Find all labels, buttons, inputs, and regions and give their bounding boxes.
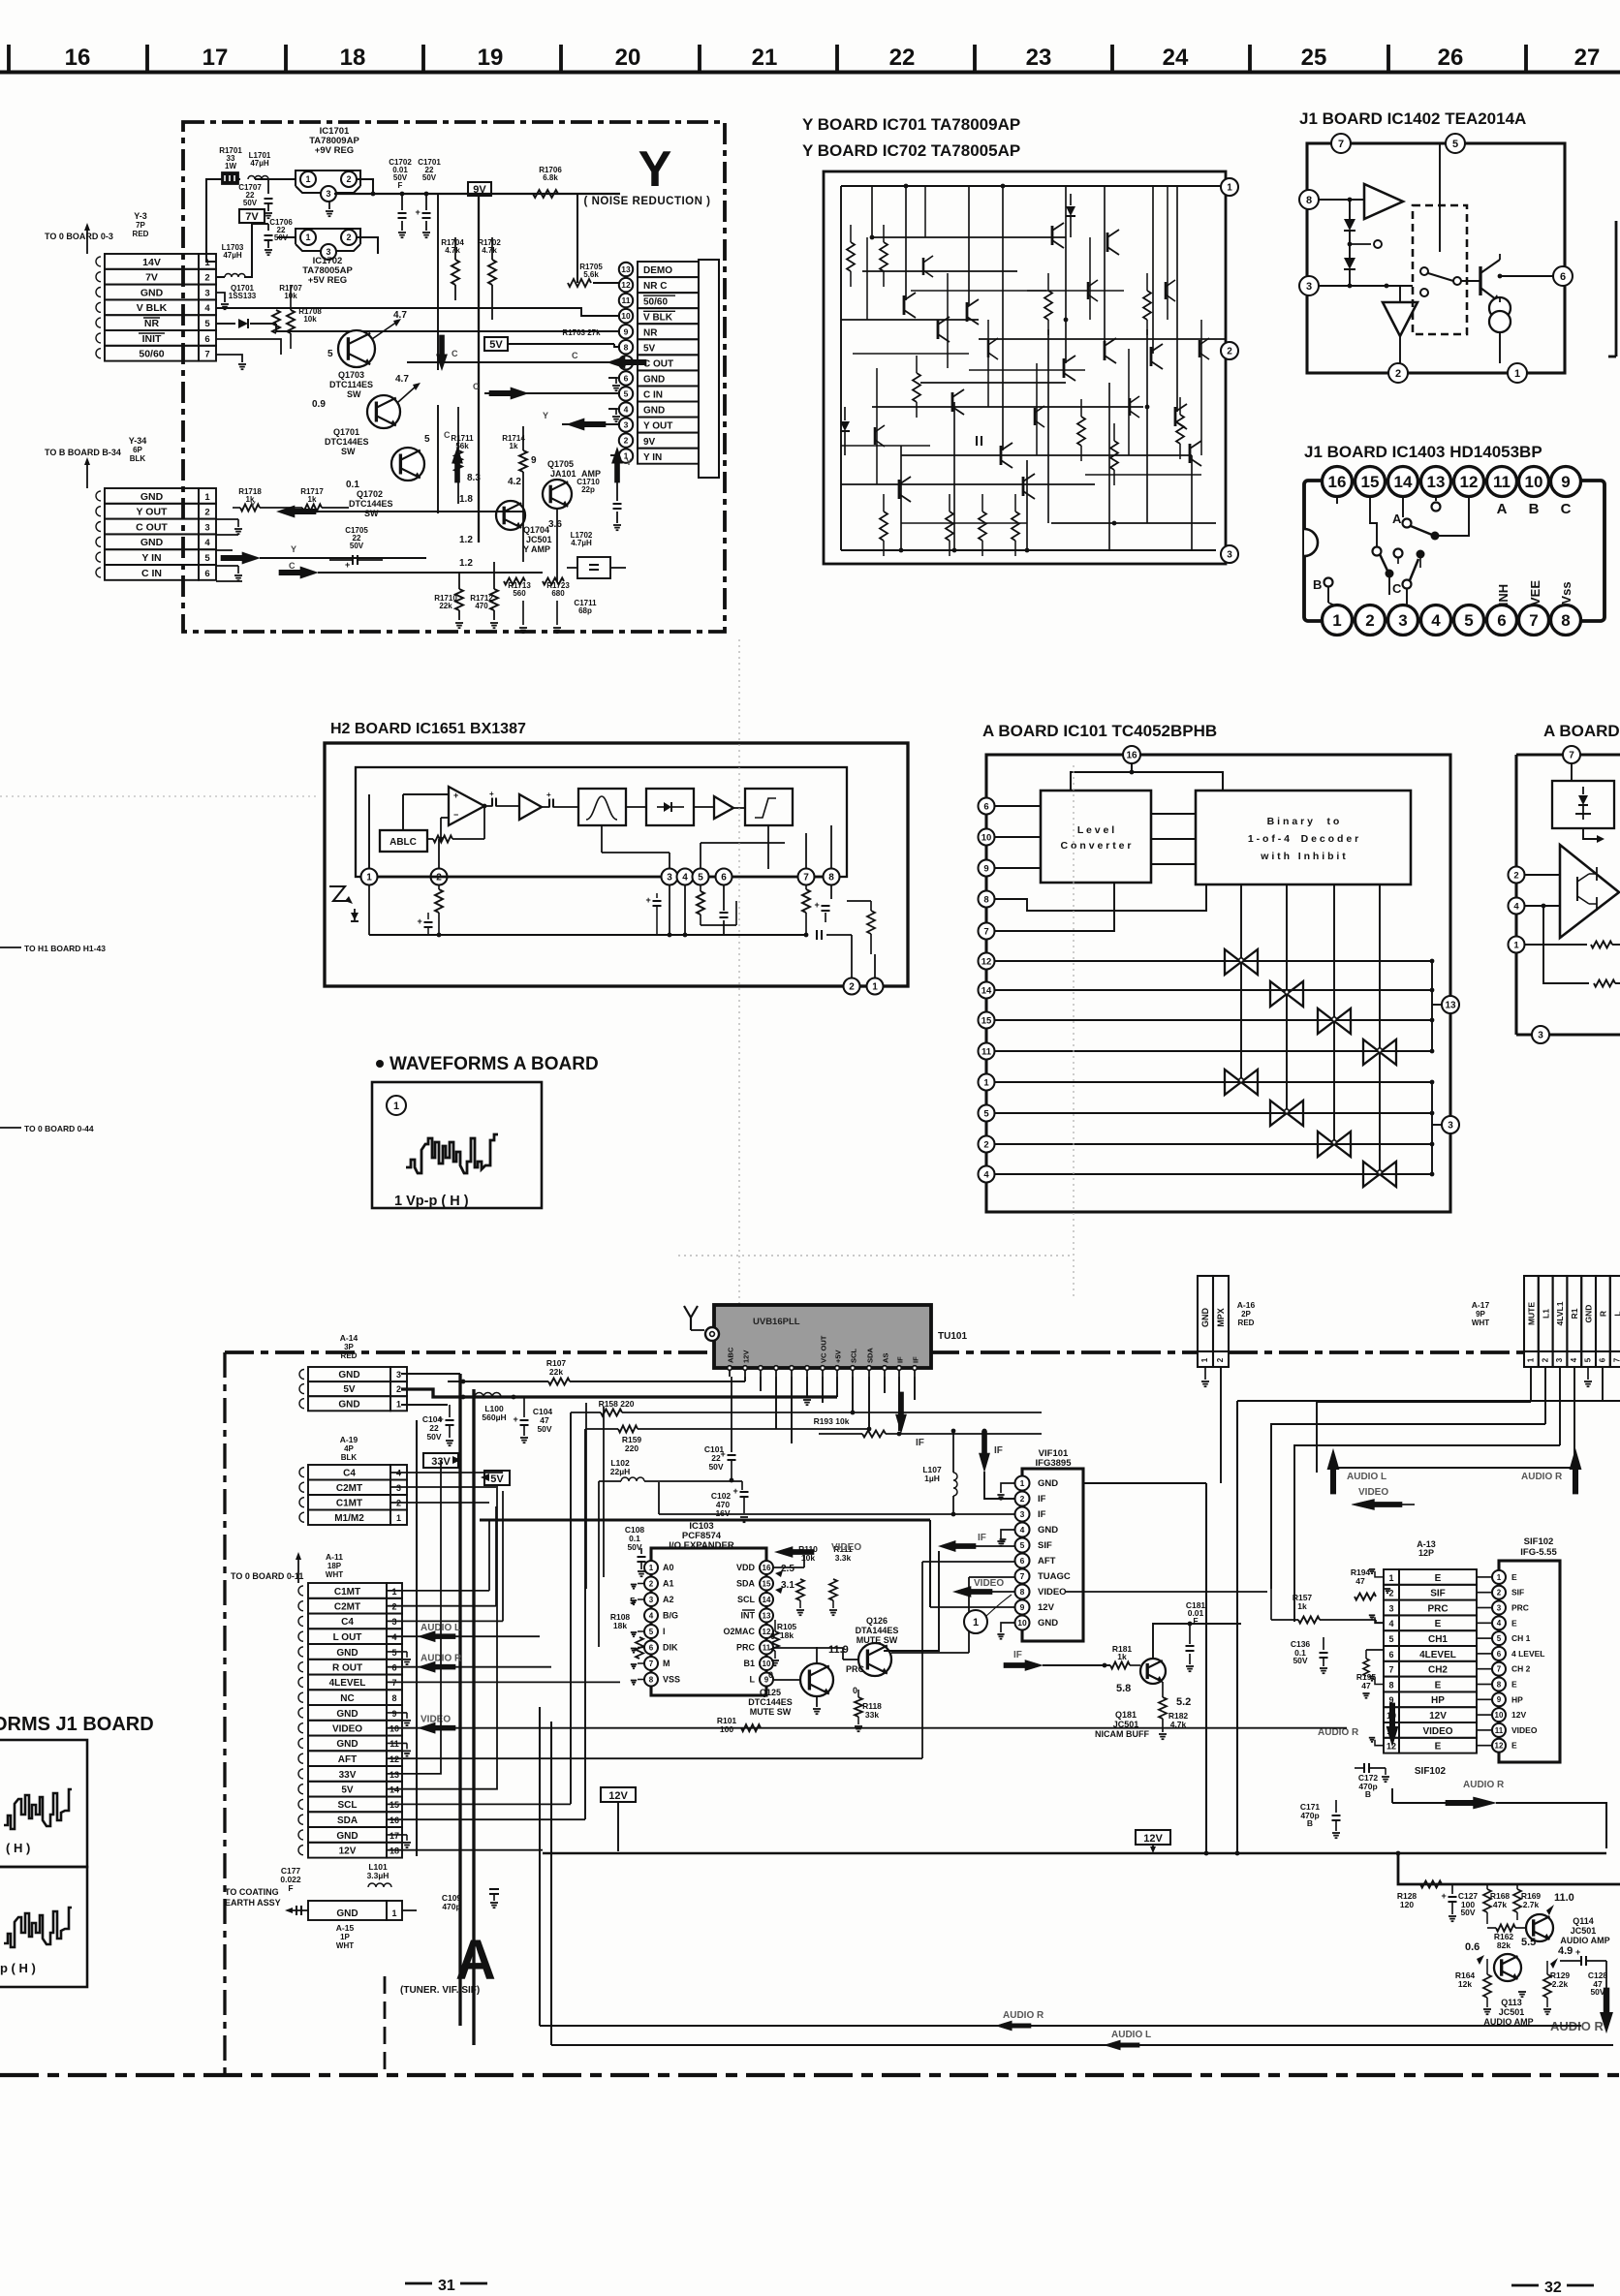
svg-text:O2MAC: O2MAC — [723, 1627, 755, 1636]
connector A-11 18P — [308, 1583, 387, 1598]
IC IC101 left pin wires to LC — [995, 805, 1041, 807]
svg-text:WHT: WHT — [1472, 1319, 1489, 1327]
svg-text:14: 14 — [981, 985, 992, 996]
wire GND10 — [608, 409, 616, 415]
transistor Q1702 — [391, 448, 424, 481]
IC IC101 LC-decoder links — [1151, 813, 1196, 815]
svg-text:4: 4 — [1388, 1619, 1393, 1629]
svg-text:V BLK: V BLK — [643, 312, 673, 323]
IC IC1402 current source — [1489, 297, 1511, 319]
svg-text:( H ): ( H ) — [6, 1841, 30, 1855]
svg-text:560: 560 — [513, 589, 526, 598]
svg-text:GND: GND — [338, 1370, 359, 1381]
IC IC1402 input wire — [1319, 199, 1364, 201]
svg-text:I: I — [663, 1627, 666, 1636]
IF down arrow into pin2 — [980, 1431, 990, 1472]
svg-text:C2MT: C2MT — [334, 1602, 360, 1613]
svg-text:6: 6 — [624, 373, 629, 383]
svg-text:50V: 50V — [350, 542, 364, 550]
tuner TU101 — [714, 1305, 931, 1368]
svg-text:JC501: JC501 — [526, 535, 552, 544]
svg-text:7V: 7V — [245, 211, 259, 223]
svg-text:+: + — [1575, 1947, 1580, 1957]
svg-text:4 LEVEL: 4 LEVEL — [1511, 1649, 1544, 1659]
svg-text:18: 18 — [340, 45, 366, 71]
svg-text:8: 8 — [1561, 611, 1570, 630]
svg-text:8: 8 — [649, 1675, 654, 1684]
svg-text:13: 13 — [389, 1770, 399, 1780]
svg-text:7: 7 — [1338, 139, 1344, 150]
svg-text:2: 2 — [849, 982, 855, 993]
svg-text:GND: GND — [1038, 1618, 1058, 1629]
badge 7V — [239, 209, 265, 223]
svg-text:SDA: SDA — [866, 1348, 875, 1363]
svg-text:Y: Y — [639, 141, 672, 198]
svg-text:GND: GND — [643, 406, 665, 417]
svg-text:5V: 5V — [489, 339, 503, 351]
IF arrows near tuner — [896, 1392, 907, 1433]
svg-text:13: 13 — [1445, 1001, 1456, 1011]
svg-text:1: 1 — [1332, 611, 1341, 630]
svg-text:4: 4 — [1570, 1357, 1578, 1362]
svg-text:AUDIO L: AUDIO L — [1347, 1472, 1386, 1482]
svg-text:47µH: 47µH — [223, 251, 242, 260]
svg-text:−: − — [453, 810, 458, 820]
svg-text:3: 3 — [1020, 1509, 1025, 1519]
svg-text:13: 13 — [1427, 473, 1446, 491]
svg-text:9: 9 — [1497, 1695, 1502, 1704]
svg-text:25: 25 — [1301, 45, 1327, 71]
svg-text:NR: NR — [643, 327, 658, 338]
svg-text:+5V REG: +5V REG — [308, 275, 347, 286]
svg-text:15: 15 — [1361, 473, 1380, 491]
svg-text:2: 2 — [1388, 1589, 1393, 1598]
svg-text:9: 9 — [983, 863, 988, 874]
badge 5V — [484, 1471, 510, 1485]
svg-text:VIDEO: VIDEO — [1422, 1726, 1452, 1737]
svg-text:2: 2 — [1497, 1589, 1502, 1598]
svg-text:3.1: 3.1 — [781, 1580, 794, 1591]
svg-text:47: 47 — [1361, 1681, 1371, 1691]
connector wires Y-3 — [216, 293, 225, 302]
IC IC1402 inverting amp — [1383, 302, 1417, 336]
partial zener box — [1552, 781, 1614, 828]
detector block — [646, 789, 694, 825]
svg-text:A-17: A-17 — [1472, 1300, 1490, 1310]
svg-text:DTC144ES: DTC144ES — [349, 499, 393, 509]
svg-text:WHT: WHT — [336, 1941, 354, 1950]
svg-text:1: 1 — [1527, 1357, 1536, 1362]
svg-text:5: 5 — [624, 389, 629, 399]
svg-text:5: 5 — [424, 434, 430, 445]
svg-text:1: 1 — [872, 982, 878, 993]
svg-text:3: 3 — [1306, 281, 1312, 293]
IC IC1403 switch B15 — [1370, 497, 1377, 546]
svg-text:1k: 1k — [1297, 1601, 1307, 1611]
svg-text:1: 1 — [396, 1513, 401, 1523]
partial pins 2 4 1 — [1509, 867, 1525, 884]
svg-text:22µH: 22µH — [610, 1467, 631, 1476]
svg-text:10: 10 — [763, 1660, 771, 1668]
svg-text:Y: Y — [626, 457, 632, 467]
IC IC701 zener diodes — [840, 421, 850, 431]
svg-text:JC501: JC501 — [1571, 1926, 1597, 1936]
coupling cap 1 — [491, 798, 493, 807]
svg-text:TO B BOARD B-34: TO B BOARD B-34 — [45, 448, 121, 457]
bandpass filter block — [578, 789, 626, 825]
svg-text:GND: GND — [1038, 1478, 1058, 1489]
svg-text:NR: NR — [144, 318, 160, 329]
12V wire — [387, 1849, 543, 1851]
svg-text:+: + — [1442, 1891, 1447, 1901]
svg-text:1: 1 — [391, 1587, 396, 1597]
svg-text:IF: IF — [994, 1445, 1003, 1456]
page number 31 — [405, 2282, 432, 2285]
svg-text:B: B — [1529, 501, 1540, 517]
svg-text:VSS: VSS — [663, 1675, 680, 1685]
svg-text:11: 11 — [622, 295, 631, 305]
svg-text:TO 0 BOARD 0-3: TO 0 BOARD 0-3 — [45, 232, 113, 241]
coupling cap 2 — [548, 799, 550, 808]
svg-text:7: 7 — [1497, 1665, 1502, 1674]
AUDIO L up arrow — [1327, 1449, 1339, 1494]
svg-text:14V: 14V — [142, 257, 161, 268]
IC IC1402 pin 8 — [1299, 190, 1319, 209]
svg-text:GND: GND — [336, 1648, 358, 1659]
12V heavy rail upper — [480, 1518, 930, 1521]
svg-text:AS: AS — [882, 1353, 890, 1363]
svg-text:12P: 12P — [1418, 1548, 1434, 1558]
svg-text:4.2: 4.2 — [508, 477, 521, 487]
svg-text:50V: 50V — [708, 1462, 723, 1472]
svg-text:31: 31 — [438, 2278, 455, 2294]
waveform box 1 — [372, 1082, 542, 1208]
svg-text:CH2: CH2 — [1428, 1665, 1448, 1676]
svg-text:PRC: PRC — [1427, 1603, 1448, 1614]
wire c out bottom — [216, 518, 238, 520]
9V vertical feed — [478, 196, 480, 543]
left margin note TO H1 BOARD — [0, 946, 21, 948]
svg-text:12V: 12V — [608, 1790, 628, 1802]
svg-text:L: L — [750, 1675, 756, 1685]
svg-text:5V: 5V — [490, 1474, 504, 1485]
svg-text:3.3µH: 3.3µH — [367, 1871, 389, 1880]
svg-text:47: 47 — [1355, 1576, 1365, 1586]
svg-text:12: 12 — [1460, 473, 1479, 491]
svg-text:11: 11 — [981, 1046, 992, 1057]
badge 12V B — [1136, 1830, 1170, 1845]
IC IC101 level converter box — [1041, 791, 1151, 883]
svg-text:5.6k: 5.6k — [583, 270, 599, 279]
svg-text:5: 5 — [204, 553, 210, 564]
svg-text:50V: 50V — [1293, 1656, 1307, 1665]
svg-text:12V: 12V — [1143, 1833, 1163, 1845]
svg-text:p ( H ): p ( H ) — [0, 1961, 36, 1975]
svg-text:1: 1 — [649, 1564, 654, 1572]
svg-text:VIDEO: VIDEO — [332, 1724, 362, 1735]
svg-text:+5V: +5V — [834, 1350, 843, 1363]
A board partial box — [1516, 753, 1620, 756]
svg-text:DTA144ES: DTA144ES — [856, 1626, 899, 1635]
svg-text:+: + — [733, 1486, 738, 1496]
svg-text:B: B — [1313, 577, 1322, 592]
svg-text:2.5: 2.5 — [781, 1564, 794, 1574]
svg-text:AFT: AFT — [338, 1754, 357, 1765]
svg-text:4: 4 — [204, 538, 210, 548]
wire C OUT row — [407, 361, 620, 363]
IC IC101 pin 3 — [1432, 1124, 1442, 1126]
svg-text:4: 4 — [624, 405, 629, 415]
svg-text:TO COATING: TO COATING — [225, 1887, 279, 1897]
svg-text:TO 0 BOARD 0-44: TO 0 BOARD 0-44 — [24, 1124, 94, 1133]
svg-text:GND: GND — [336, 1908, 358, 1919]
long wires from A-11 rows — [387, 1590, 489, 1592]
svg-text:VIDEO: VIDEO — [1358, 1487, 1388, 1498]
svg-text:SCL: SCL — [850, 1349, 858, 1363]
TUAGC wire pin7 — [969, 1576, 1014, 1578]
svg-text:+: + — [546, 791, 551, 799]
IC IC1402 pin 1 — [1508, 363, 1527, 383]
svg-text:7: 7 — [1020, 1571, 1025, 1581]
svg-text:3: 3 — [624, 420, 629, 430]
svg-text:68p: 68p — [578, 606, 592, 615]
IC IC103 pins — [644, 1561, 658, 1574]
svg-text:+: + — [416, 207, 421, 217]
svg-text:47µH: 47µH — [250, 159, 269, 168]
svg-text:ABLC: ABLC — [389, 837, 417, 848]
svg-text:2: 2 — [346, 233, 351, 242]
svg-text:A2: A2 — [663, 1595, 674, 1604]
svg-text:1.2: 1.2 — [459, 558, 473, 569]
svg-text:6: 6 — [1020, 1556, 1025, 1566]
svg-text:B1: B1 — [743, 1659, 755, 1668]
transistor Q114 transistor — [1526, 1914, 1553, 1941]
svg-text:8.3: 8.3 — [467, 473, 481, 483]
svg-text:H2 BOARD IC1651 BX1387: H2 BOARD IC1651 BX1387 — [330, 721, 526, 737]
svg-text:AUDIO AMP: AUDIO AMP — [1560, 1936, 1609, 1945]
A board dash-dot boundary top — [225, 1350, 1198, 1354]
svg-text:A BOARD IC101 TC4052BPHB: A BOARD IC101 TC4052BPHB — [982, 722, 1217, 740]
svg-text:560µH: 560µH — [482, 1412, 506, 1422]
svg-text:1µH: 1µH — [924, 1474, 940, 1483]
IC IC1701 +9V regulator — [296, 171, 360, 186]
svg-text:SIF: SIF — [1430, 1589, 1446, 1599]
badge 12V A — [601, 1787, 636, 1802]
svg-text:R1703 27k: R1703 27k — [562, 328, 601, 337]
svg-text:16: 16 — [1126, 751, 1137, 761]
svg-text:Y: Y — [543, 411, 548, 420]
svg-text:SW: SW — [347, 389, 361, 399]
wires IC103 to VIF — [773, 1567, 804, 1568]
svg-text:5: 5 — [983, 1108, 989, 1119]
wire GND8 — [608, 378, 616, 384]
svg-text:11.9: 11.9 — [828, 1644, 849, 1656]
svg-text:19: 19 — [478, 45, 504, 71]
svg-text:8: 8 — [391, 1693, 396, 1703]
svg-text:+: + — [646, 895, 651, 905]
svg-text:8: 8 — [828, 873, 834, 884]
svg-text:50/60: 50/60 — [139, 349, 164, 360]
svg-text:+: + — [489, 790, 494, 798]
IC IC1403 body — [1304, 481, 1604, 621]
partial pin 7 — [1563, 746, 1580, 763]
svg-text:33k: 33k — [865, 1710, 879, 1720]
svg-text:4.7k: 4.7k — [445, 246, 460, 255]
AUDIO R up arrow — [1570, 1449, 1581, 1494]
pin4 wire — [684, 884, 686, 935]
svg-text:5: 5 — [649, 1628, 654, 1636]
A board dash-dot boundary left — [223, 1352, 226, 2075]
IC VIF101 pin4 ground — [1001, 1530, 1014, 1539]
svg-text:17: 17 — [389, 1831, 399, 1841]
IC IC701 internal rails — [841, 185, 1221, 187]
svg-text:5: 5 — [1497, 1634, 1502, 1643]
svg-text:PRC: PRC — [846, 1664, 865, 1674]
IC IC1403 pin16 stub — [1336, 496, 1338, 504]
svg-text:5.8: 5.8 — [1116, 1683, 1131, 1694]
svg-text:120: 120 — [1400, 1900, 1414, 1909]
svg-text:3: 3 — [1398, 611, 1407, 630]
svg-text:1: 1 — [366, 873, 372, 884]
svg-text:2: 2 — [1513, 870, 1518, 881]
IC IC1402 box — [1307, 143, 1565, 373]
connector A-14 3P — [308, 1367, 390, 1381]
IC IC1402 pin 2 — [1388, 363, 1408, 383]
partial big triangle — [1560, 845, 1619, 938]
svg-text:12V: 12V — [1038, 1602, 1055, 1613]
svg-text:C: C — [572, 351, 578, 360]
svg-text:AFT: AFT — [1038, 1556, 1056, 1567]
svg-text:A-16: A-16 — [1237, 1300, 1256, 1310]
svg-text:24: 24 — [1163, 45, 1189, 71]
svg-text:7: 7 — [1529, 611, 1538, 630]
AUDIO R down arrow — [1386, 1703, 1398, 1746]
svg-text:0: 0 — [853, 1686, 857, 1695]
svg-text:+: + — [439, 1414, 444, 1424]
svg-text:VEE: VEE — [1528, 580, 1542, 605]
svg-text:6: 6 — [1388, 1650, 1393, 1660]
svg-text:( NOISE REDUCTION ): ( NOISE REDUCTION ) — [584, 196, 711, 207]
grid ruler — [0, 70, 1620, 74]
svg-text:2: 2 — [204, 273, 209, 284]
9V rail — [334, 193, 620, 195]
svg-text:5.5: 5.5 — [1521, 1937, 1536, 1948]
svg-text:DEMO: DEMO — [643, 265, 672, 276]
IC IC101 left pins — [979, 798, 995, 815]
svg-text:C: C — [444, 430, 451, 440]
fat arrow Y OUT — [567, 419, 606, 430]
svg-text:6: 6 — [1497, 611, 1506, 630]
svg-text:IF: IF — [896, 1356, 905, 1363]
IC IC101 decoder outputs — [1240, 884, 1242, 1082]
IC IC1651 pins — [361, 869, 378, 885]
connector A-13 12P — [1384, 1569, 1399, 1585]
svg-text:7: 7 — [204, 350, 209, 360]
gnd marks inside Y board bottom — [519, 627, 527, 629]
IC IC1402 amp triangle — [1364, 184, 1403, 219]
svg-text:4: 4 — [1020, 1525, 1025, 1535]
R OUT wire — [387, 1666, 551, 1668]
IC IC1402 switch contacts — [1420, 267, 1428, 275]
svg-text:16: 16 — [1328, 473, 1347, 491]
svg-text:B i n a r y t o: B i n a r y t o — [1267, 816, 1340, 827]
wire verticals right — [1205, 1483, 1207, 1853]
svg-text:DTC114ES: DTC114ES — [329, 380, 373, 389]
svg-text:SIF: SIF — [1511, 1588, 1524, 1598]
svg-text:6: 6 — [649, 1643, 654, 1652]
arrows down/up inside — [437, 335, 448, 370]
svg-text:22p: 22p — [581, 485, 595, 494]
IC VIF101 pin10 ground — [1001, 1623, 1014, 1632]
33V wire — [387, 1467, 441, 1774]
svg-text:3: 3 — [667, 873, 672, 884]
svg-text:Y IN: Y IN — [643, 452, 662, 463]
svg-text:9: 9 — [1020, 1602, 1025, 1612]
IC IC1402 pin 6 — [1553, 266, 1573, 286]
page number 32 — [1511, 2284, 1539, 2287]
bottom caps right — [816, 930, 818, 940]
svg-text:9: 9 — [624, 326, 629, 336]
waveform ref circle 1 — [964, 1610, 987, 1633]
svg-text:NC: NC — [340, 1693, 354, 1704]
resistor R164 — [1483, 1974, 1491, 1998]
page bottom dash-dot rule — [0, 2073, 1620, 2077]
IC IC101 pin 16 — [1123, 746, 1140, 763]
svg-text:6: 6 — [1599, 1357, 1607, 1362]
svg-text:TO H1 BOARD H1-43: TO H1 BOARD H1-43 — [24, 944, 106, 953]
svg-text:4.7: 4.7 — [395, 374, 409, 385]
svg-text:2.2k: 2.2k — [1552, 1979, 1569, 1989]
resistor R162 — [1487, 1927, 1496, 1929]
IC IC1402 transistor — [1479, 266, 1481, 295]
svg-text:R1: R1 — [1570, 1308, 1579, 1319]
svg-text:4: 4 — [1431, 611, 1441, 630]
svg-text:10: 10 — [1017, 1618, 1027, 1628]
svg-text:HP: HP — [1431, 1695, 1445, 1706]
svg-text:A-19: A-19 — [340, 1435, 358, 1444]
svg-text:Q126: Q126 — [866, 1616, 888, 1626]
tuner antenna — [684, 1306, 691, 1318]
svg-text:9: 9 — [1561, 473, 1570, 491]
IC IC101 output bus group2 — [1431, 1082, 1433, 1174]
svg-text:5: 5 — [1388, 1634, 1393, 1644]
svg-text:AUDIO R: AUDIO R — [1463, 1780, 1505, 1790]
feedback resistor — [433, 836, 452, 843]
waveform squiggle — [406, 1134, 498, 1173]
svg-text:5: 5 — [204, 319, 210, 329]
svg-text:4: 4 — [204, 303, 210, 314]
svg-text:50V: 50V — [627, 1542, 641, 1552]
svg-text:AUDIO R: AUDIO R — [1318, 1727, 1359, 1738]
svg-text:Y AMP: Y AMP — [523, 544, 550, 554]
svg-text:WHT: WHT — [326, 1570, 343, 1579]
svg-text:+: + — [721, 1449, 726, 1459]
svg-text:Y IN: Y IN — [141, 552, 161, 564]
svg-text:1: 1 — [1200, 1357, 1209, 1362]
svg-text:C OUT: C OUT — [643, 359, 673, 370]
svg-text:Y: Y — [250, 500, 256, 510]
svg-text:3: 3 — [1388, 1603, 1393, 1613]
pin7 resistor — [802, 889, 810, 913]
svg-text:GND: GND — [336, 1739, 358, 1750]
svg-text:GND: GND — [140, 491, 164, 503]
transistor Q113 labels — [1518, 1991, 1526, 1993]
svg-text:VIDEO: VIDEO — [831, 1542, 861, 1553]
svg-text:4: 4 — [1513, 901, 1519, 912]
VIDEO arrow pin8 — [953, 1587, 992, 1598]
svg-text:R OUT: R OUT — [332, 1663, 362, 1674]
svg-text:ORMS J1 BOARD: ORMS J1 BOARD — [0, 1714, 154, 1735]
